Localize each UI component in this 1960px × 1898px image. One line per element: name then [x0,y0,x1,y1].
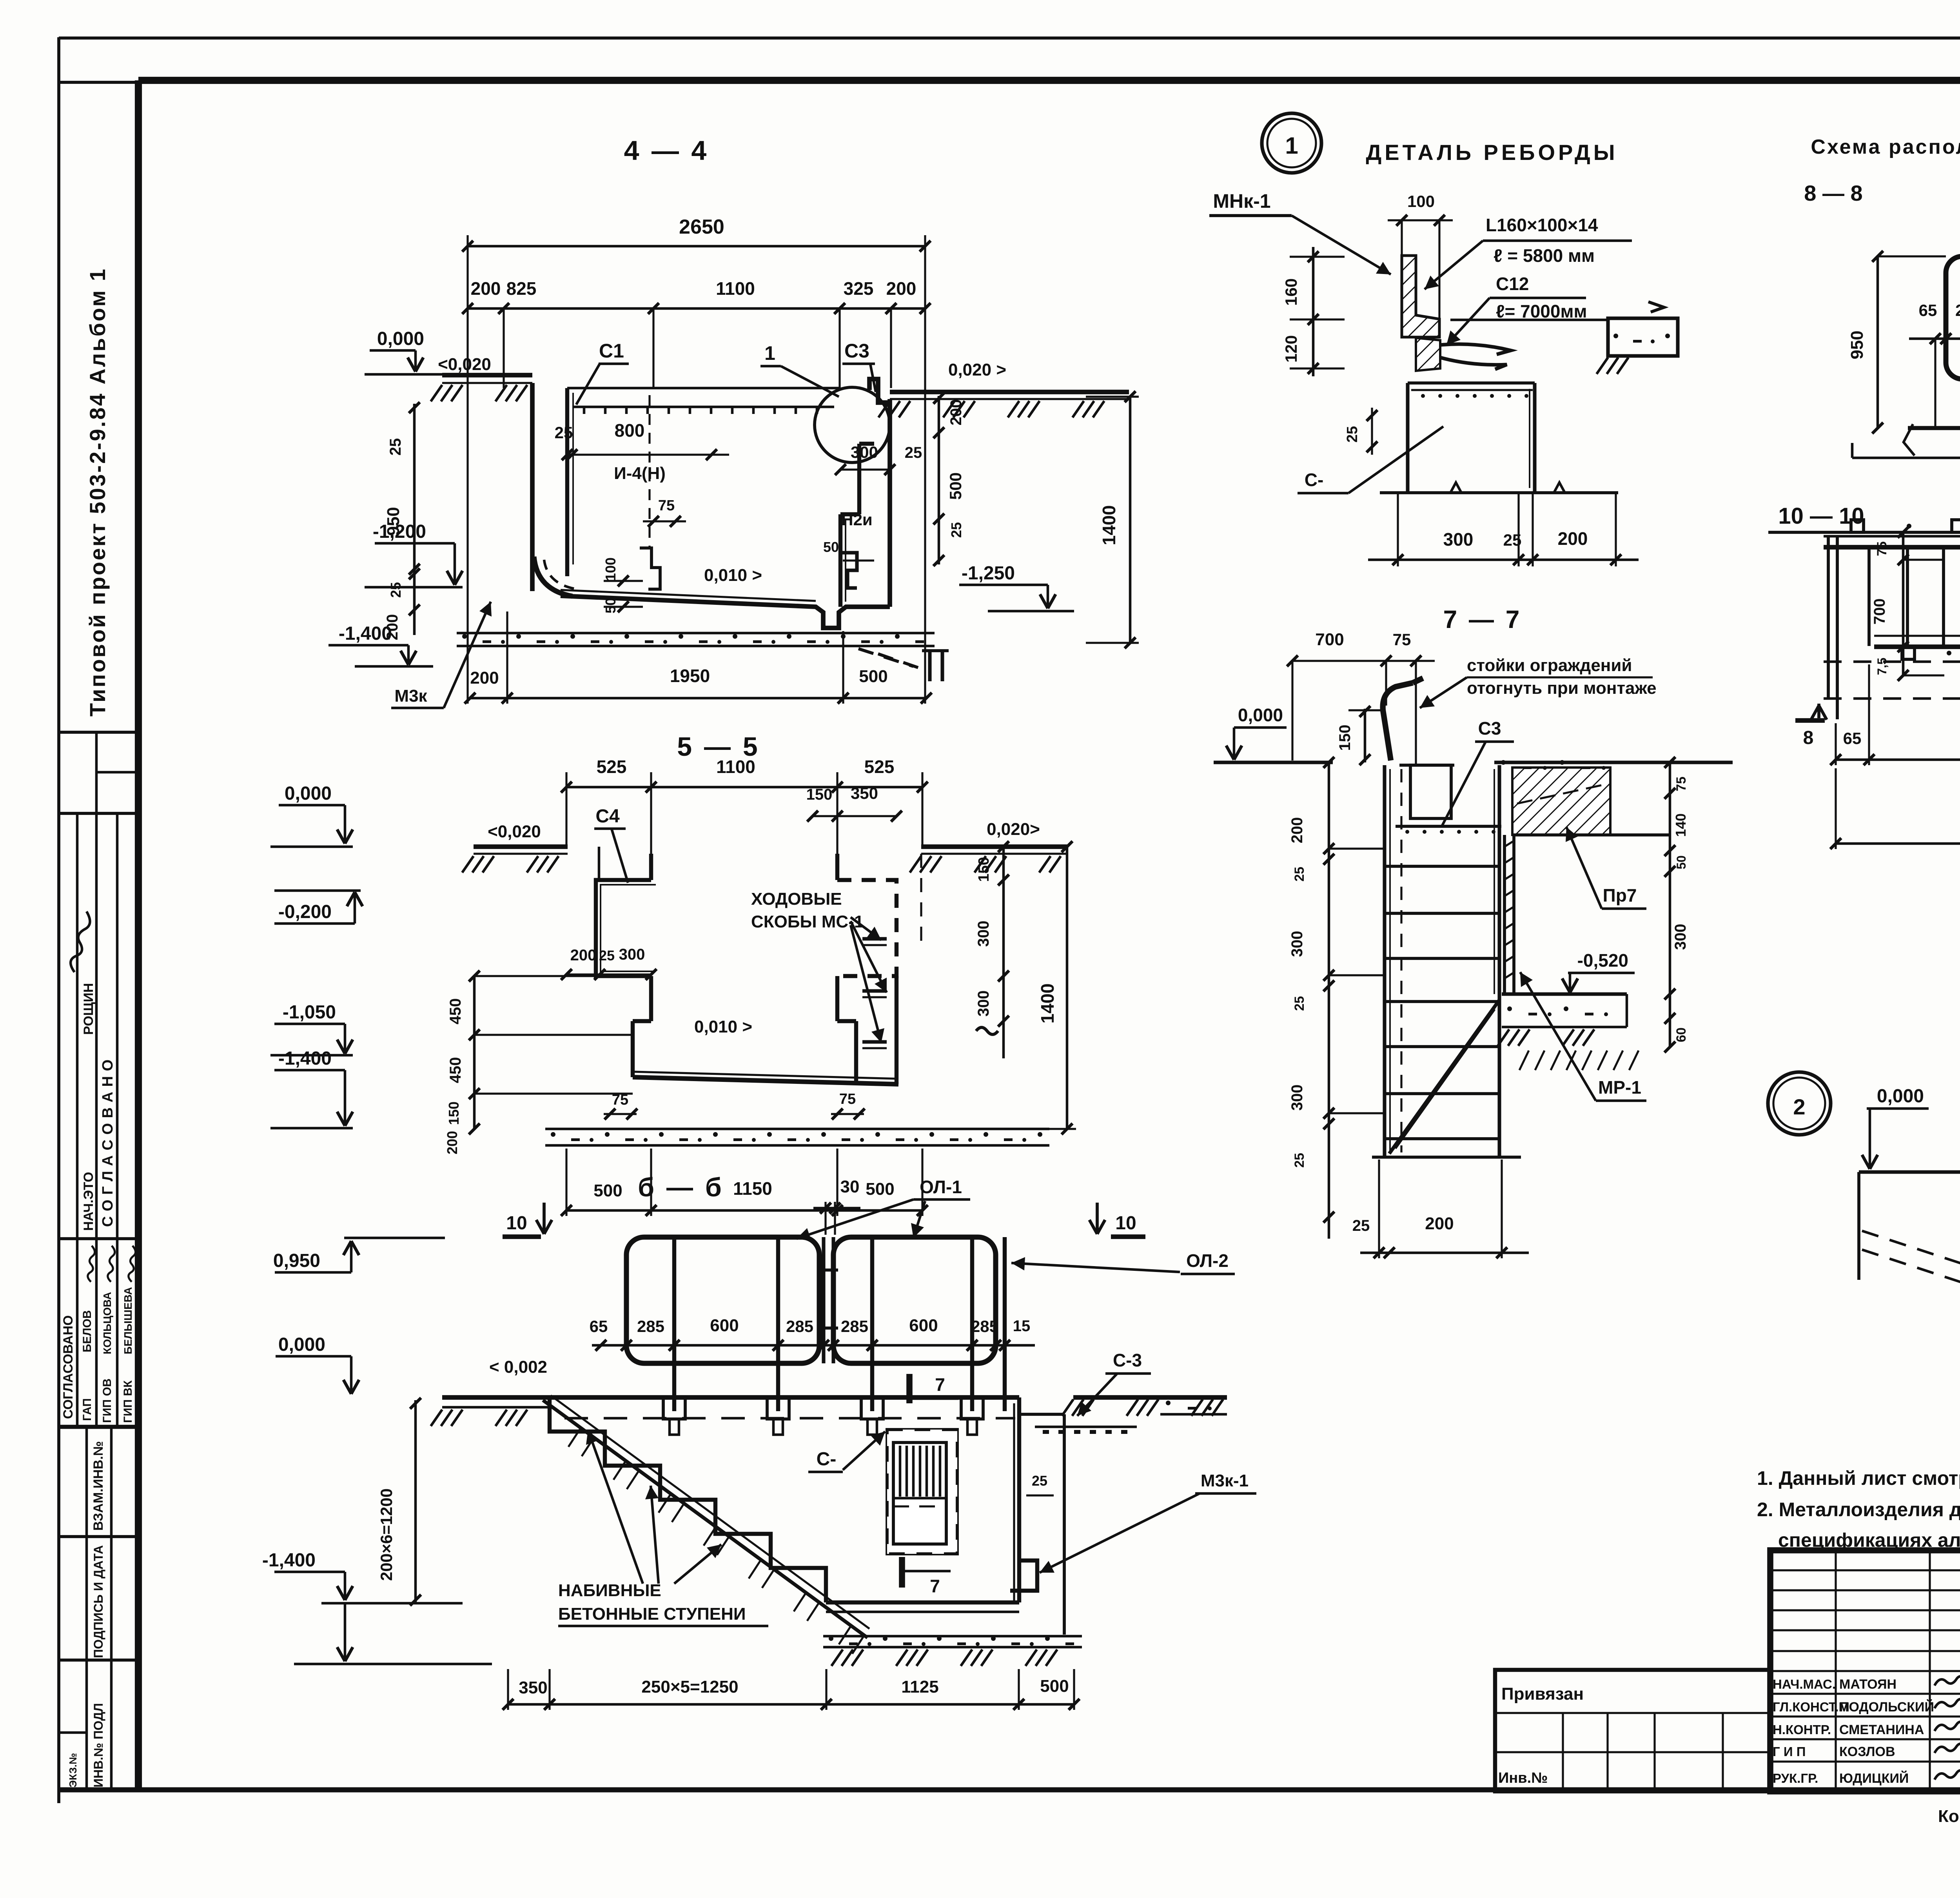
svg-text:ОЛ-2: ОЛ-2 [1186,1250,1229,1271]
svg-text:25: 25 [555,423,573,442]
gravel bed under pit floor [457,632,935,635]
left vertical dimension chain 25/950/25/200 [413,404,416,635]
clips on upper rail [1851,520,1864,532]
svg-text:ℓ = 5800 мм: ℓ = 5800 мм [1494,245,1595,266]
dashed line below walkway [564,1417,1015,1420]
svg-text:60: 60 [1674,1027,1689,1042]
svg-text:2. Металлоизделия даны в ал: 2. Металлоизделия даны в альбоме(раздел … [1757,1499,1960,1521]
concrete slab right (speckled) [1608,318,1678,356]
svg-text:25: 25 [1292,996,1307,1011]
svg-text:200: 200 [570,947,597,964]
ground line right of pit [890,390,1129,394]
svg-text:1100: 1100 [716,757,755,777]
svg-text:200: 200 [947,399,965,426]
svg-text:7 — 7: 7 — 7 [1443,605,1522,633]
drawing frame left border (thick) [135,80,142,1790]
sheet outer left border line [57,37,60,1803]
drawing frame bottom border [58,1787,1960,1793]
overall dimension 2650 [468,245,925,248]
svg-text:ГИП ОВ: ГИП ОВ [101,1379,114,1423]
section marker 7 lower [899,1557,905,1588]
svg-text:285: 285 [637,1317,664,1335]
svg-text:1125: 1125 [901,1677,938,1697]
svg-text:<0,020: <0,020 [488,822,541,841]
signature squiggle approval 1 [65,911,95,972]
svg-text:825: 825 [506,278,537,299]
handrail panel ОЛ-1 B [833,1237,996,1363]
svg-text:б — б: б — б [638,1172,724,1202]
small table Привязан [1495,1670,1770,1791]
panel B posts [870,1237,874,1411]
С-3 corner mesh top right [1019,1397,1064,1414]
svg-text:И-4(Н): И-4(Н) [614,464,666,483]
svg-text:С12: С12 [1496,274,1529,294]
left vertical dim 950 (8-8) [1877,256,1879,428]
svg-text:200: 200 [444,1131,460,1154]
bottom break line of detail [1380,491,1618,494]
svg-text:300: 300 [1289,931,1306,957]
section marker 7 upper [906,1374,913,1403]
svg-text:-1,200: -1,200 [373,521,426,542]
left wall upper part with niche [649,854,653,880]
svg-text:БЕТОННЫЕ СТУПЕНИ: БЕТОННЫЕ СТУПЕНИ [558,1604,746,1624]
svg-text:75: 75 [1875,541,1889,556]
left dim chain 160/120 [1312,247,1315,376]
inner dimension 25/800 [567,454,729,455]
long dashed line lower (10-10) [1824,697,1960,700]
svg-text:НАЧ.ЭТО: НАЧ.ЭТО [81,1172,96,1231]
svg-text:ВЗАМ.ИНВ.№: ВЗАМ.ИНВ.№ [91,1441,106,1531]
svg-text:1. Данный лист смотреть с: 1. Данный лист смотреть с листом 17 [1757,1467,1960,1489]
svg-text:75: 75 [612,1092,628,1108]
svg-text:200: 200 [886,278,916,299]
earth hatch right of ladder [1519,1051,1529,1070]
floor line right of rebord [1450,319,1608,321]
clips on lower band [1902,647,1915,659]
stamp strip empty cell block [95,732,98,813]
stamp cell ПОДПИСЬ И ДАТА [85,1537,88,1660]
svg-text:25: 25 [905,444,922,461]
outer excavation right (6-6) [1063,1414,1066,1635]
rungs on right wall [862,937,887,940]
dashed zone С- in plan [887,1430,957,1554]
svg-text:285: 285 [971,1317,998,1335]
dashed slope lines (detail 2) [1862,1231,1960,1297]
svg-text:Схема расположения элементов: Схема расположения элементов ограждения … [1811,136,1960,158]
svg-text:25: 25 [599,947,615,964]
М3к-1 corner bracket [1010,1560,1037,1591]
svg-text:700: 700 [1315,630,1344,649]
pit top opening edge line [567,387,840,390]
title block middle column grid [1770,1569,1960,1571]
stamp cell ИНВ.№ ПОДЛ / ЭКЗ.№ [85,1660,88,1790]
svg-text:-1,400: -1,400 [339,623,392,644]
concrete topping slab (7-7, hatched) [1512,768,1610,835]
lower base line (8-8) [1852,457,1960,459]
svg-text:0,950: 0,950 [273,1250,320,1271]
pit wall corner below detail [1408,381,1535,385]
svg-text:150: 150 [446,1101,462,1125]
lower concrete ledge (speckled) [1502,992,1627,996]
rebord angle cross-section (hatched) [1402,256,1439,337]
panel A posts [672,1237,676,1411]
bottom dimension chain 500/1150/500 (5-5) [566,1209,922,1212]
drawing frame top border (thick) [138,77,1960,84]
ground line walkway (6-6) [442,1395,1019,1400]
svg-text:М3к: М3к [394,686,427,706]
svg-text:0,000: 0,000 [377,328,424,349]
dashed boundary inside pit [648,395,650,548]
svg-text:4 — 4: 4 — 4 [624,135,709,166]
svg-text:БЕЛОВ: БЕЛОВ [81,1310,94,1352]
leaders to stairs [588,1430,643,1584]
pit floor (6-6) [826,1600,1019,1604]
svg-text:800: 800 [615,420,645,441]
svg-text:350: 350 [519,1678,547,1697]
svg-text:25: 25 [1032,1473,1047,1489]
svg-text:8: 8 [1803,728,1814,748]
svg-text:285: 285 [786,1317,813,1335]
panel ОЛ-1 (8-8) [1946,256,1960,379]
svg-text:500: 500 [593,1181,622,1200]
svg-text:ЮДИЦКИЙ: ЮДИЦКИЙ [1839,1771,1909,1786]
svg-text:-0,520: -0,520 [1577,950,1628,971]
svg-text:С1: С1 [599,340,624,362]
anchor pockets under posts [663,1397,685,1419]
left wall edge (detail 2) [1857,1172,1860,1280]
lower level arrow (6-6) [344,1603,347,1661]
svg-text:НАБИВНЫЕ: НАБИВНЫЕ [558,1581,661,1600]
grate line at top (7-7) [1396,825,1501,828]
65 offset extension (8-8) [1934,339,1936,428]
svg-text:Привязан: Привязан [1501,1684,1584,1704]
extension stubs under chain [503,308,505,388]
svg-text:65: 65 [1919,301,1937,319]
slope tick right [1648,302,1664,312]
ground line left of pit [442,373,532,377]
detail circle C3 (узел 1) [815,387,890,463]
stamp block СОГЛАСОВАНО (ГАП/ГИП) [76,1239,79,1427]
svg-text:75: 75 [839,1091,856,1107]
dash-dot lines inside slab [1517,784,1607,804]
pit right wall (6-6) [1017,1397,1021,1602]
tilde mark [976,1027,998,1034]
svg-text:< 0,002: < 0,002 [489,1357,547,1377]
svg-text:0,010 >: 0,010 > [694,1017,752,1036]
svg-text:1: 1 [1285,132,1298,159]
svg-text:КОЛЬЦОВА: КОЛЬЦОВА [101,1292,113,1354]
svg-text:500: 500 [866,1179,894,1199]
svg-text:150: 150 [806,786,833,803]
panel gap connector stubs [822,1237,825,1363]
dashed drain lines below right wall [858,649,913,666]
svg-text:РУК.ГР.: РУК.ГР. [1773,1771,1818,1785]
svg-text:150: 150 [1336,725,1354,751]
svg-text:Г И П: Г И П [1773,1744,1806,1759]
gravel bed (6-6) [823,1635,1082,1638]
svg-text:600: 600 [909,1316,938,1335]
stamp strip divider under designation [58,731,138,734]
svg-text:950: 950 [1847,330,1867,359]
svg-text:25: 25 [1503,531,1522,549]
ledge bottom line (7-7) [1512,833,1670,836]
svg-text:25: 25 [1292,867,1307,882]
left road surface [442,1406,552,1409]
svg-text:1400: 1400 [1099,505,1119,545]
svg-text:Инв.№: Инв.№ [1498,1770,1548,1786]
svg-text:200×6=1200: 200×6=1200 [377,1488,396,1581]
svg-text:-1,400: -1,400 [262,1550,316,1571]
bottom dim chain 300/25/200 (detail) [1368,559,1639,561]
svg-text:200: 200 [1289,817,1306,844]
svg-text:75: 75 [658,497,675,514]
bottom dim chain 65/1170/15/1150/100 [1836,758,1960,761]
svg-text:450: 450 [447,998,464,1025]
svg-text:50: 50 [823,539,839,555]
svg-text:25: 25 [1344,426,1361,443]
channel С12 cross-section (hatched) [1416,338,1440,371]
svg-text:100: 100 [603,557,619,581]
svg-text:0,000: 0,000 [285,783,332,804]
grate C1 with teeth [573,406,834,408]
base break left (8-8) [1904,424,1915,455]
svg-text:8 — 8: 8 — 8 [1804,181,1862,205]
svg-text:0,000: 0,000 [1238,705,1283,725]
svg-text:-1,250: -1,250 [962,563,1015,584]
svg-text:стойки ограждений: стойки ограждений [1467,656,1632,675]
bottom dimension chain 200/1950/500 [470,697,926,700]
right wall upper with dashed niche [835,854,839,880]
ground line left (5-5) [474,844,568,849]
leaders to rungs [851,917,881,940]
svg-text:500: 500 [946,472,965,500]
svg-text:140: 140 [1673,813,1689,837]
svg-text:ЭКЗ.№: ЭКЗ.№ [67,1753,79,1787]
excavation slope line under stairs [543,1400,867,1638]
overall right dimension 1400 (5-5) [1066,847,1069,1129]
right wall below niche [835,976,839,1021]
svg-text:100: 100 [1407,192,1435,210]
dimension extension line right x=2360 [924,235,926,704]
svg-text:МАТОЯН: МАТОЯН [1839,1677,1896,1692]
lower band (10-10) [1874,635,1960,637]
svg-text:75: 75 [1393,630,1411,649]
svg-text:1150: 1150 [733,1178,772,1199]
svg-text:0,000: 0,000 [278,1334,325,1355]
svg-text:ГИП ВК: ГИП ВК [122,1380,134,1423]
svg-text:С-: С- [1305,470,1324,490]
svg-text:С3: С3 [844,340,869,362]
level line 0,000 [365,373,445,376]
pit left wall [530,383,535,591]
svg-text:285: 285 [1955,301,1960,319]
svg-text:С О Г Л А С О В А Н О: С О Г Л А С О В А Н О [100,1059,116,1227]
svg-text:1100: 1100 [716,278,755,299]
panel top band (10-10) [1824,535,1960,538]
bent guard post [1383,683,1413,760]
signatures in title block [1934,1674,1960,1686]
ladder dashed centerline [1400,769,1402,1152]
svg-text:0,010 >: 0,010 > [704,566,762,585]
svg-text:525: 525 [597,757,627,777]
ground line (7-7) [1214,760,1333,764]
svg-text:0,020>: 0,020> [987,820,1040,839]
forked anchor prongs [1440,344,1511,354]
svg-text:С4: С4 [595,806,620,827]
concrete strip right ground [1160,1397,1227,1414]
svg-text:Пр7: Пр7 [1603,885,1637,905]
left rotated chain 75/700/75 (10-10) [1902,532,1905,675]
svg-text:15: 15 [1013,1317,1031,1335]
partition step at floor [640,548,660,589]
ladder diagonal brace [1389,1000,1499,1154]
ladder bottom line [1372,1156,1521,1159]
right ground (6-6) [1073,1395,1227,1400]
svg-text:<0,020: <0,020 [438,355,491,374]
svg-text:Копировал: Копировал [1938,1807,1960,1826]
svg-text:-1,400: -1,400 [278,1048,332,1069]
svg-text:65: 65 [1843,729,1862,748]
sheet top border line [59,36,1960,40]
svg-text:ГЛ.КОНСТ.М: ГЛ.КОНСТ.М [1773,1700,1849,1714]
svg-text:325: 325 [844,278,874,299]
stairs flight [550,1397,826,1602]
svg-text:500: 500 [859,667,887,686]
svg-text:25: 25 [948,522,964,538]
svg-text:-0,200: -0,200 [278,902,332,922]
svg-text:Н2и: Н2и [841,510,873,529]
svg-text:ПОДОЛЬСКИЙ: ПОДОЛЬСКИЙ [1839,1699,1934,1715]
svg-text:500: 500 [1040,1677,1069,1696]
svg-text:1400: 1400 [1037,983,1058,1023]
upper rail edge line [1768,531,1960,534]
svg-text:525: 525 [864,757,895,777]
svg-text:200: 200 [1425,1214,1454,1233]
dashed centerline (10-10) [1824,660,1960,663]
rung stripes in plan [1867,549,1871,646]
svg-text:25: 25 [387,438,404,456]
centre dots upper rail [1907,524,1911,528]
svg-text:7,5: 7,5 [1875,658,1889,675]
signature squiggles approval 2 [85,1246,97,1282]
svg-text:БЕЛЫШЕВА: БЕЛЫШЕВА [122,1287,134,1354]
svg-text:ГАП: ГАП [81,1398,94,1421]
svg-text:50: 50 [1674,855,1688,869]
svg-text:120: 120 [1282,335,1300,363]
svg-text:600: 600 [710,1316,739,1335]
ladder rails (7-7) [1383,765,1386,1156]
stamp cell ВЗАМ.ИНВ.№ [85,1427,88,1537]
hatch along slope [568,1429,580,1447]
svg-text:75: 75 [1674,777,1689,791]
right inner vertical dimension chain 200/500/25 [938,396,940,564]
handrail panel ОЛ-1 A [626,1237,819,1363]
svg-text:7: 7 [930,1576,940,1596]
svg-text:СКОБЫ МС-1: СКОБЫ МС-1 [751,912,864,931]
svg-text:ДЕТАЛЬ РЕБОРДЫ: ДЕТАЛЬ РЕБОРДЫ [1366,140,1618,165]
svg-text:300: 300 [975,921,992,947]
svg-text:ℓ= 7000мм: ℓ= 7000мм [1496,301,1587,321]
rebord angle in detail circle [869,379,890,403]
ОЛ-2 end post line [1003,1237,1007,1411]
svg-text:200: 200 [470,668,499,688]
svg-text:300: 300 [1672,924,1689,950]
svg-text:С3: С3 [1478,718,1501,739]
bottom dims 25/200 (7-7) [1360,1252,1529,1254]
svg-text:М3к-1: М3к-1 [1201,1471,1249,1490]
svg-text:0,020 >: 0,020 > [948,360,1006,379]
svg-text:25: 25 [388,582,404,598]
svg-text:1950: 1950 [670,666,710,686]
svg-text:С-3: С-3 [1113,1350,1142,1370]
stamp strip top edge [59,81,138,84]
svg-text:300: 300 [1443,529,1474,550]
svg-text:2650: 2650 [679,216,724,238]
svg-text:250×5=1250: 250×5=1250 [641,1677,738,1697]
svg-text:300: 300 [1289,1085,1306,1111]
top dimension chain 525/1100/525 [566,786,922,789]
svg-text:1: 1 [764,342,775,364]
svg-text:200: 200 [471,278,501,299]
ground line right (5-5) [921,844,1067,849]
pit floor 5-5 [633,1077,898,1084]
svg-text:10: 10 [1115,1213,1136,1234]
svg-text:отогнуть при монтаже: отогнуть при монтаже [1467,679,1657,698]
left wall below niche with step [649,976,653,1021]
ladder hatch rect in plan [893,1443,946,1544]
title block outer frame [1770,1550,1960,1791]
svg-text:НАЧ.МАС.: НАЧ.МАС. [1773,1677,1836,1691]
detail circle 2 [1768,1072,1831,1135]
svg-text:Типовой проект 503-2-9.84: Типовой проект 503-2-9.84 Альбом 1 [85,267,110,717]
svg-text:150: 150 [976,857,992,882]
svg-text:300: 300 [851,443,878,461]
svg-text:ИНВ.№ ПОДЛ: ИНВ.№ ПОДЛ [91,1703,105,1787]
pit floor with sump funnel [561,596,890,628]
svg-text:0,000: 0,000 [1877,1086,1924,1107]
svg-text:25: 25 [1352,1217,1370,1234]
svg-text:300: 300 [975,991,992,1017]
svg-text:25: 25 [1292,1153,1307,1168]
drain pipe symbol [928,650,931,681]
svg-text:285: 285 [841,1317,868,1335]
walk surface line (detail 2) [1859,1170,1960,1174]
svg-text:СМЕТАНИНА: СМЕТАНИНА [1839,1722,1924,1737]
svg-text:РОЩИН: РОЩИН [81,983,96,1035]
base line (8-8) [1908,426,1960,430]
svg-text:Н.КОНТР.: Н.КОНТР. [1773,1722,1831,1737]
stirrup box at ladder top [1410,765,1451,818]
pit right wall stepped profile [838,514,842,607]
right rotated chain 150/300/300 [1002,847,1005,1058]
svg-text:300: 300 [619,946,645,963]
svg-text:65: 65 [590,1317,608,1335]
curved skirt М3к at pit floor left [534,557,572,596]
left lower rotated chain 450/450/150/200 [473,976,476,1129]
svg-text:450: 450 [447,1057,464,1083]
svg-text:МНк-1: МНк-1 [1213,190,1270,212]
svg-text:ХОДОВЫЕ: ХОДОВЫЕ [751,889,842,909]
svg-text:350: 350 [851,784,878,802]
section markers 8 (10-10) [1795,718,1825,723]
svg-text:-1,050: -1,050 [283,1002,336,1023]
svg-text:СОГЛАСОВАНО: СОГЛАСОВАНО [61,1315,76,1419]
gravel bed (5-5) [545,1128,1049,1130]
svg-text:КОЗЛОВ: КОЗЛОВ [1839,1744,1895,1759]
right rotated dim chain (7-7) [1669,762,1671,1047]
svg-text:10: 10 [506,1213,527,1234]
svg-text:ПОДПИСЬ И ДАТА: ПОДПИСЬ И ДАТА [91,1545,105,1658]
